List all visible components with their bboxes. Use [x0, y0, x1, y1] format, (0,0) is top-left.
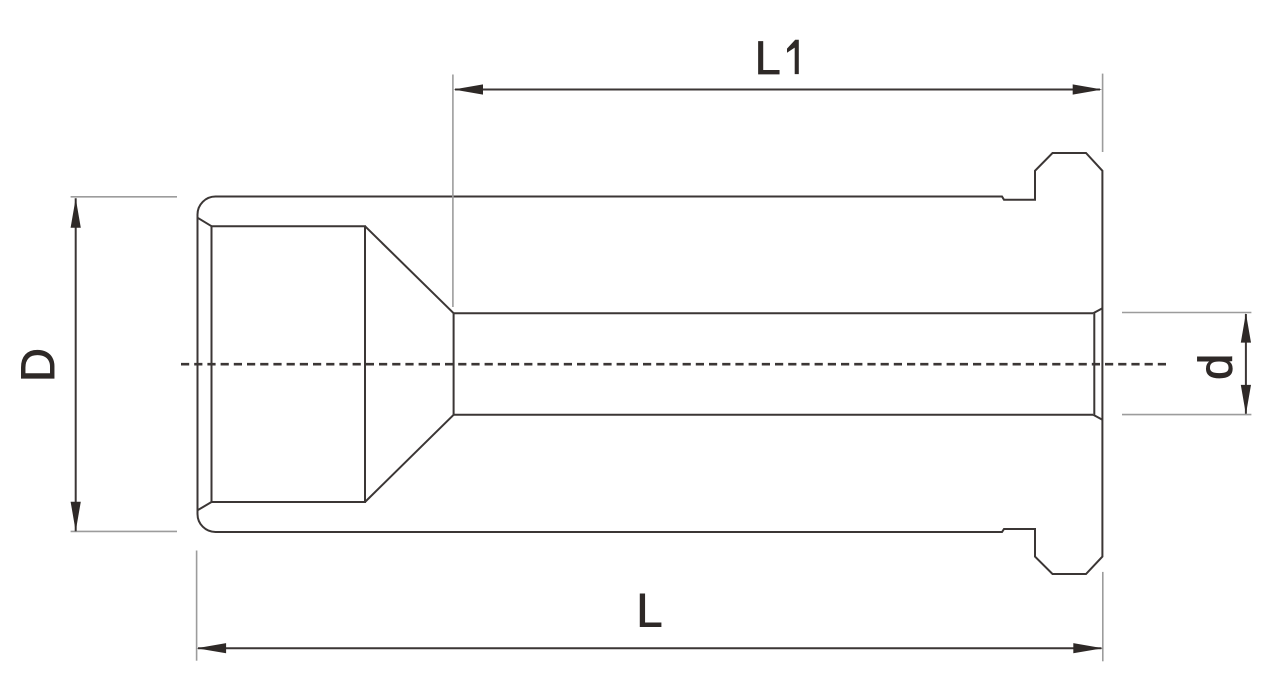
bore bottom line	[454, 414, 1094, 416]
extension line L1 left	[452, 75, 454, 308]
extension line L left	[196, 551, 198, 661]
counterbore entry chamfer bottom	[198, 502, 212, 510]
dimension line d	[1245, 314, 1247, 414]
label L1 digit 1	[787, 40, 799, 74]
arrowhead L right	[1073, 643, 1103, 653]
outer body profile	[198, 153, 1103, 574]
taper top line	[365, 226, 454, 313]
arrowhead d top	[1241, 313, 1251, 343]
arrowhead d bottom	[1241, 385, 1251, 415]
bore exit face	[1093, 313, 1095, 415]
dimension line L	[198, 647, 1102, 649]
dimension line D	[75, 198, 77, 531]
svg-text:L: L	[755, 31, 781, 84]
bore start face	[453, 313, 455, 415]
arrowhead L1 left	[454, 84, 484, 94]
arrowhead L left	[197, 643, 227, 653]
extension line L right	[1102, 572, 1104, 661]
arrowhead D bottom	[71, 502, 81, 532]
taper bottom line	[365, 415, 454, 502]
extension line L1 right	[1102, 74, 1104, 152]
extension line d bottom	[1122, 414, 1251, 416]
svg-text:D: D	[11, 348, 64, 382]
arrowhead L1 right	[1073, 84, 1103, 94]
arrowhead D top	[71, 198, 81, 228]
svg-text:L: L	[636, 584, 662, 637]
bore exit chamfer top	[1093, 308, 1102, 313]
bore exit chamfer bottom	[1093, 415, 1102, 420]
extension line D bottom	[71, 530, 177, 532]
extension line D top	[71, 196, 177, 198]
dimension line L1	[455, 89, 1100, 91]
centerline	[181, 363, 1166, 366]
counterbore rectangle	[212, 226, 366, 502]
extension line d top	[1122, 312, 1251, 314]
counterbore entry chamfer top	[198, 218, 212, 227]
svg-text:d: d	[1189, 354, 1242, 380]
bore top line	[454, 312, 1094, 314]
